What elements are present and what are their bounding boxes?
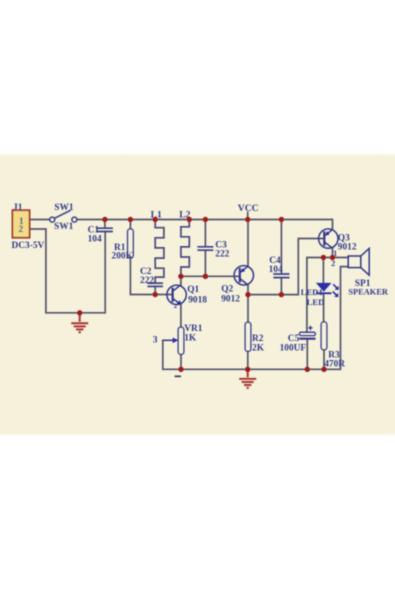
wire: Q2 emitter to rail [247,220,249,267]
resistor R3 [321,322,327,350]
wire: J1 pin1 to SW1 [30,219,50,221]
svg-text:3: 3 [153,335,158,346]
speaker SP1 [348,248,369,275]
node: C3 bottom [203,274,208,279]
svg-text:222: 222 [140,276,154,286]
wire: R3 bottom lead [323,350,325,370]
svg-text:SW1: SW1 [54,222,74,232]
cream schematic background [0,156,395,433]
wire: Q2 collector node to Q3 base [248,239,324,295]
node: rail/L2 [187,217,192,222]
svg-text:9018: 9018 [188,296,207,306]
wire: C4 top lead [280,220,282,274]
ground (left, at input filter) [71,313,88,332]
wire: R2 bottom lead [247,351,249,369]
wire: bottom ground rail with VR1 wiper return and speaker return [163,267,348,370]
node: rail/C4 [279,217,284,222]
svg-text:104: 104 [88,235,102,245]
capacitor C4 [273,274,289,278]
wire: R1 top lead [129,220,131,229]
wire: C4 bottom lead [280,278,282,294]
wire: VCC stem [247,213,249,220]
wire: Q2 collector down to R2 [247,285,249,322]
node: Q1 base/C2/R1 [153,292,158,297]
inductor L1 [155,220,164,283]
svg-text:9012: 9012 [221,294,240,304]
node: rail/L1 [153,217,158,222]
wire: Q1 base [155,294,173,296]
node: rail/C1 [102,217,107,222]
svg-text:LED: LED [307,297,325,307]
transistor Q3 9012 [319,229,338,248]
node: rail/C3 [203,217,208,222]
node: LED anode [321,255,326,260]
wire: J1 pin2 down around to C1 bottom [30,229,106,313]
svg-text:200K: 200K [112,251,134,261]
wire: Q1 emitter down to VR1 [180,305,182,327]
wire: node B net L2/C3/Q2 base [181,275,240,277]
node: Q2 collector/R2 [245,292,250,297]
svg-text:Q1: Q1 [187,285,199,295]
svg-text:2K: 2K [252,343,265,353]
transistor Q2 9012 [234,266,253,285]
node: C5 bottom [305,367,310,372]
svg-text:1K: 1K [184,333,197,343]
node: L2/Q1 collector [178,274,183,279]
inductor L2 [181,220,189,277]
svg-text:SW1: SW1 [54,203,74,213]
svg-text:J1: J1 [13,203,23,213]
svg-text:100UF: 100UF [280,343,307,353]
wire: C2 bottom lead [154,287,156,295]
wire: LED anode lead [322,258,324,283]
wire: C3 bottom lead [204,251,206,277]
LED LED1 [316,283,339,297]
resistor R1 [128,229,134,258]
transistor Q1 9018 [167,285,186,305]
svg-text:LED1: LED1 [301,287,323,297]
svg-text:2: 2 [19,224,24,234]
node: R2/ground [245,367,250,372]
svg-text:2: 2 [331,259,335,268]
svg-text:DC3-5V: DC3-5V [12,241,45,251]
node: rail/VCC/Q2 [245,217,250,222]
svg-text:104: 104 [269,265,283,275]
svg-text:SPEAKER: SPEAKER [348,288,389,297]
svg-text:Q2: Q2 [221,285,233,295]
wire: VR1 bottom lead [180,354,182,369]
wire: C3 top lead [204,220,206,247]
capacitor C2 [147,283,163,286]
minus mark near VR1 return [175,375,181,377]
wire: Q1 collector up to node B [180,276,182,285]
junction dots [77,217,335,372]
wire: C5 bottom lead [306,339,308,369]
svg-text:VCC: VCC [238,203,259,214]
switch SW1 [50,210,77,222]
node: R3 bottom [321,367,326,372]
wire: C5 top lead and output node to speaker [307,258,348,333]
resistor R2 [245,322,251,351]
wire: C1 top lead [104,220,106,229]
potentiometer VR1 [163,327,184,354]
wire: R1 bottom lead to Q1 base node [130,258,155,295]
svg-text:9012: 9012 [338,242,357,252]
wire: Q3 collector down to output node [332,248,334,257]
node: input ground [77,310,82,315]
wire: top VCC rail to Q3 collector [77,220,333,230]
svg-text:222: 222 [215,250,229,260]
capacitor C5 polarized [299,326,315,339]
node: Q3 collector/speaker [330,255,335,260]
ground (bottom center) [239,369,256,388]
capacitor C3 [197,247,213,250]
capacitor C1 [97,228,113,231]
node: C4 bottom [279,292,284,297]
wire: LED cathode to R3 [323,293,325,322]
node: VR1 bottom [178,367,183,372]
node: rail/R1 [128,217,133,222]
svg-text:470R: 470R [324,359,345,369]
connector J1 [12,203,45,251]
